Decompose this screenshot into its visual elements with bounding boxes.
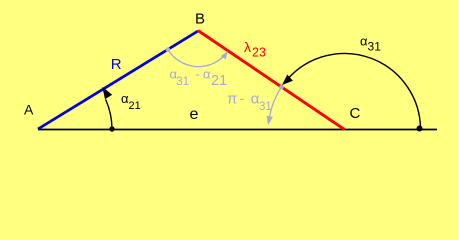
arrowhead of alpha21 arc xyxy=(102,87,112,99)
arrowhead of alpha31 arc xyxy=(282,75,293,86)
node dot on baseline (alpha21 vertex marker) xyxy=(109,126,114,131)
wire red side lambda23 (B to C) xyxy=(198,31,345,130)
svg-text:B: B xyxy=(195,11,205,28)
arrowhead of pale down arc xyxy=(267,116,273,125)
arc alpha21 at A xyxy=(106,99,112,129)
arc alpha31 (big arc centered at C) xyxy=(288,53,421,129)
svg-text:α: α xyxy=(203,67,211,82)
svg-text:R: R xyxy=(111,56,122,73)
arc alpha31-alpha21 at B (pale) xyxy=(168,50,224,67)
svg-text:31: 31 xyxy=(259,101,272,113)
svg-text:A: A xyxy=(24,102,34,118)
arrowhead of pale arc at B xyxy=(221,51,228,59)
wire baseline e (A to right end) xyxy=(38,129,437,131)
svg-text:e: e xyxy=(190,106,199,123)
node dot on baseline right (alpha31 vertex marker) xyxy=(417,126,423,132)
arc pi-alpha31 (pale, centered at C) xyxy=(270,87,282,116)
node pale dot on red line xyxy=(279,85,284,90)
svg-text:-: - xyxy=(196,67,200,82)
svg-text:21: 21 xyxy=(211,73,227,89)
svg-text:C: C xyxy=(350,105,361,122)
svg-text:31: 31 xyxy=(176,76,189,88)
svg-text:π: π xyxy=(227,91,237,108)
wire blue side R (A to B) xyxy=(38,31,198,129)
svg-text:-: - xyxy=(240,90,245,106)
node pale dot on blue line xyxy=(166,47,171,52)
